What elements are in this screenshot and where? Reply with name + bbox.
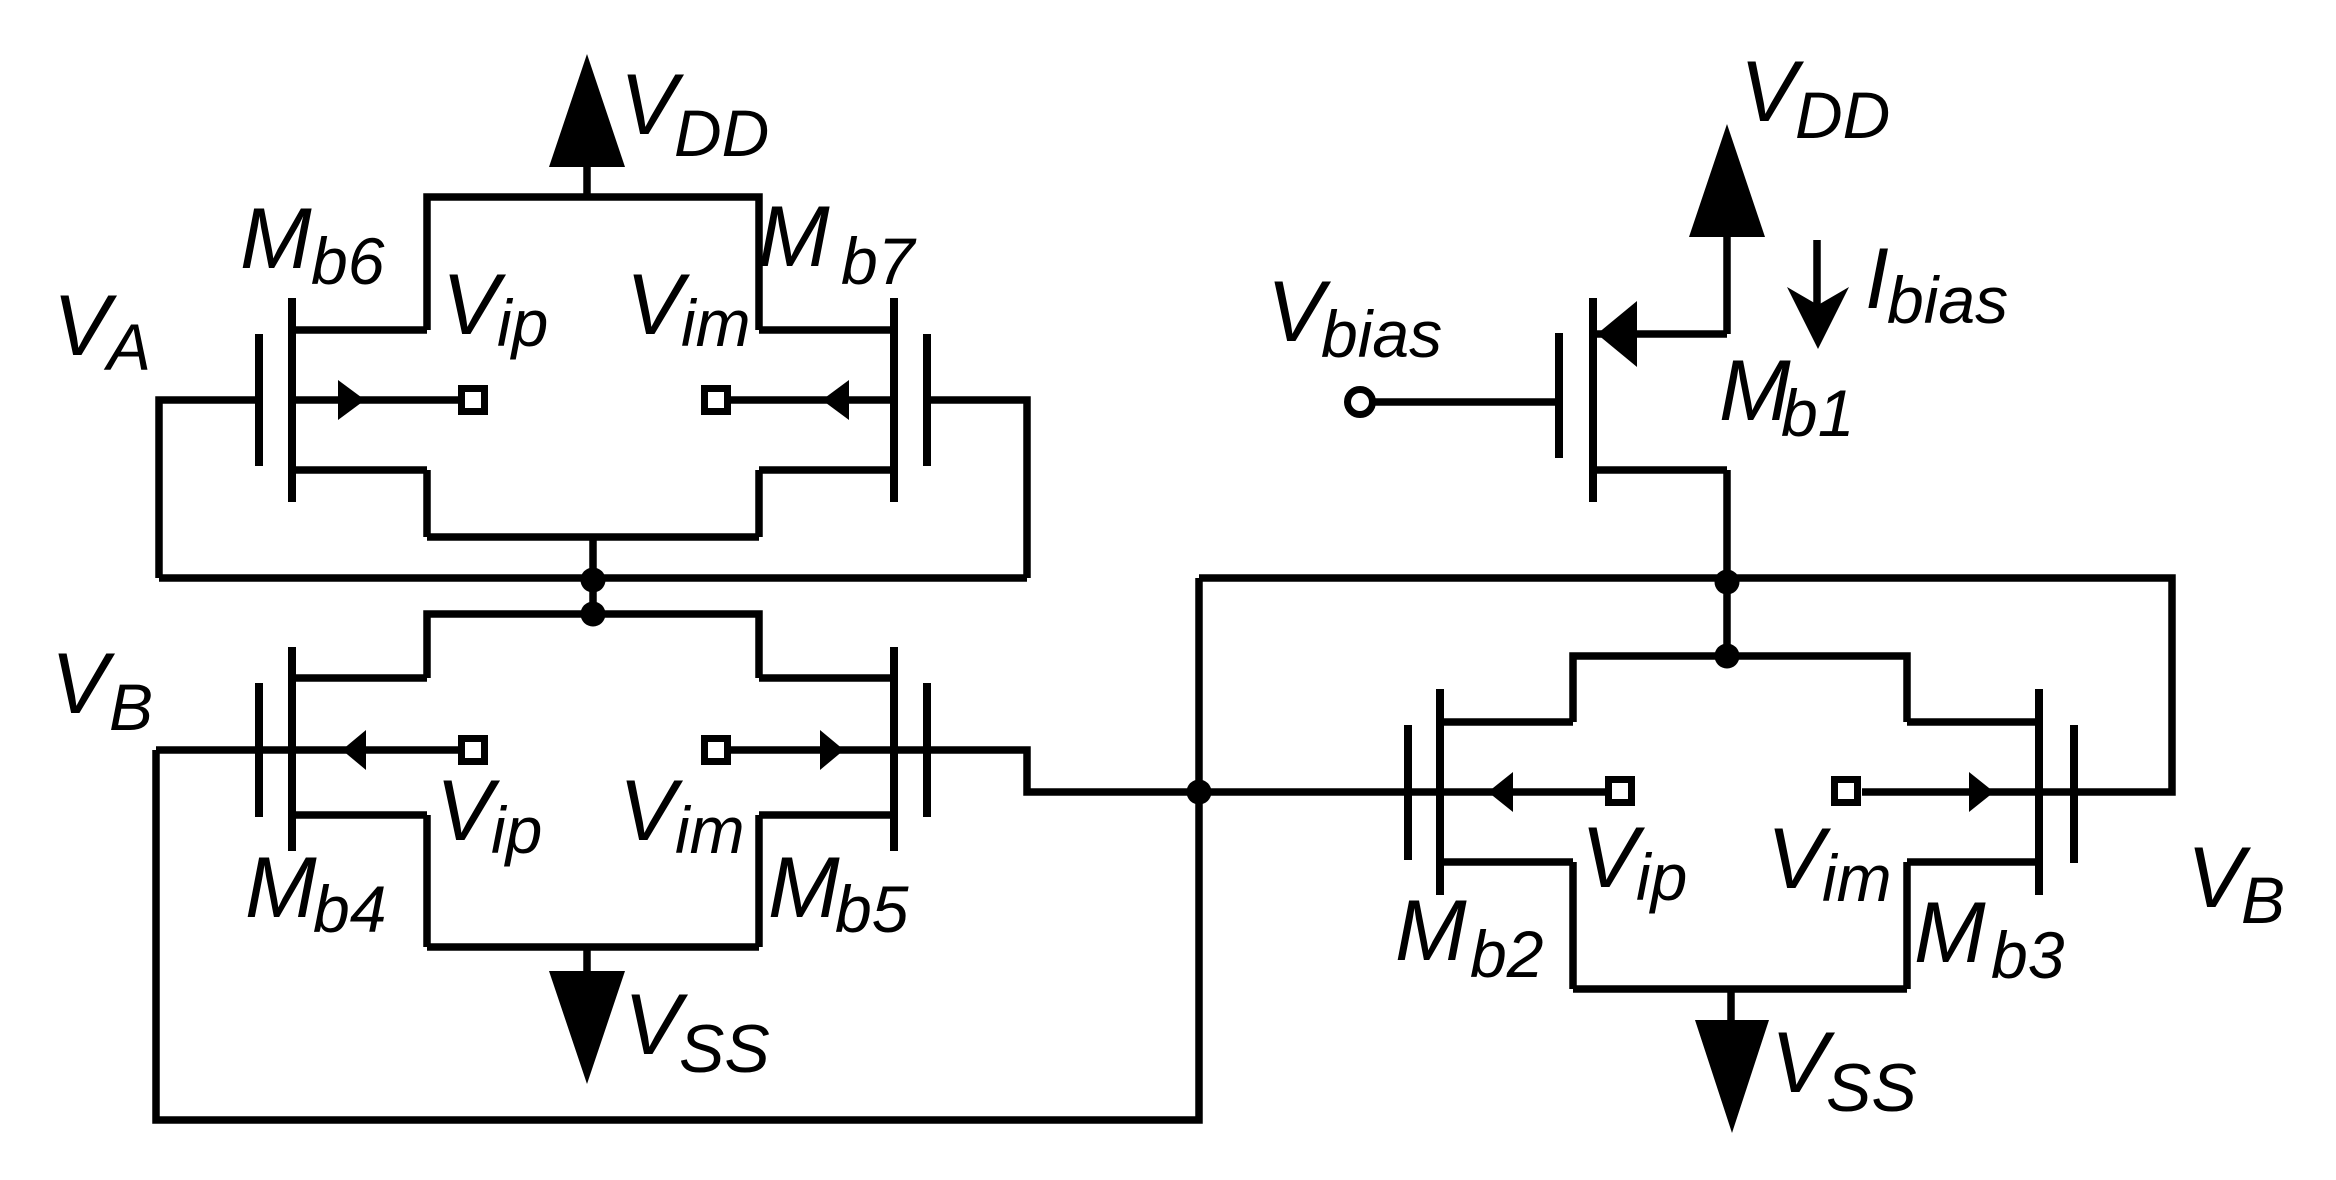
label VDD (right)	[1740, 44, 1890, 152]
junction dot node VA upper	[581, 568, 606, 593]
svg-text:SS: SS	[1826, 1050, 1917, 1126]
transistor Mb4	[156, 647, 458, 851]
wire bottom rail Mb2/Mb3 to VSS	[1573, 985, 1907, 993]
label node VA	[53, 278, 151, 384]
svg-text:B: B	[2241, 863, 2285, 937]
current arrow Ibias	[1787, 240, 1849, 349]
svg-text:ip: ip	[1636, 840, 1687, 914]
power symbol VDD (left)	[549, 54, 625, 200]
port square Vip (top cell)	[462, 389, 485, 412]
svg-text:im: im	[675, 793, 745, 867]
svg-text:ip: ip	[497, 286, 548, 360]
transistor Mb6	[259, 298, 458, 502]
wire Mb2 source drop	[1569, 862, 1577, 989]
power symbol VSS (left)	[549, 947, 625, 1084]
label Vip (top cell)	[442, 257, 548, 360]
label Mb4	[245, 840, 386, 946]
label Vim (Mb5)	[619, 763, 745, 867]
label Mb6	[240, 191, 385, 298]
svg-text:M: M	[768, 840, 840, 936]
svg-text:b2: b2	[1470, 917, 1543, 991]
label Ibias	[1865, 231, 2008, 337]
label Mb1	[1719, 343, 1854, 450]
svg-text:M: M	[1914, 885, 1986, 981]
transistor Mb2	[1408, 689, 1605, 895]
wire Vbias to Mb1 gate	[1373, 398, 1559, 406]
wire Mb7 gate to node VA	[927, 400, 1027, 578]
wire Mb5 gate jog to node VB line	[927, 750, 1408, 792]
junction dot node VA lower	[581, 602, 606, 627]
label Vip (Mb4)	[436, 763, 542, 867]
transistor Mb5	[730, 647, 927, 851]
wire Mb5 source drop	[755, 815, 763, 947]
wire top rail right section (node VB)	[1199, 578, 2172, 792]
svg-text:DD: DD	[1795, 78, 1890, 152]
label Vip (Mb2)	[1581, 810, 1687, 914]
junction dot Mb1 drain at rail	[1715, 570, 1740, 595]
svg-text:A: A	[103, 310, 151, 384]
svg-text:b7: b7	[841, 224, 917, 298]
power symbol VDD (right)	[1689, 124, 1765, 334]
wire Mb1 drain down to rail	[1723, 470, 1731, 656]
svg-text:DD: DD	[674, 96, 769, 170]
svg-text:im: im	[681, 286, 751, 360]
svg-text:I: I	[1865, 231, 1889, 327]
wire Mb7 source drop	[755, 470, 763, 537]
wire top rail left cell (sources of Mb6/Mb7 to VDD)	[427, 197, 759, 330]
label Mb2	[1395, 883, 1543, 991]
label node VB (left)	[51, 636, 153, 744]
svg-text:b3: b3	[1991, 918, 2065, 992]
svg-text:M: M	[1395, 883, 1467, 979]
wire top rail of Mb4/Mb5	[427, 614, 759, 678]
wire Mb6 source drop	[423, 470, 431, 537]
transistor Mb7	[730, 298, 927, 502]
junction dot node VB	[1187, 780, 1212, 805]
transistor Mb1	[1559, 298, 1727, 502]
svg-text:ip: ip	[491, 793, 542, 867]
wire Mb6 gate to node VA	[159, 400, 259, 578]
wire Mb3 source drop	[1903, 862, 1911, 989]
terminal Vbias	[1348, 390, 1373, 415]
wire node VB: Mb4 gate down and bottom rail	[156, 578, 1199, 1120]
port square Vim (Mb5)	[705, 739, 728, 762]
svg-text:bias: bias	[1887, 263, 2008, 337]
transistor Mb3	[1862, 689, 2074, 895]
power symbol VSS (right)	[1695, 989, 1769, 1133]
port square Vim (top cell)	[705, 389, 728, 412]
wire bottom rail Mb4/Mb5 to VSS	[427, 943, 759, 951]
label VSS (left)	[624, 977, 770, 1087]
port square Vip (Mb4)	[462, 739, 485, 762]
wire drain rail of Mb2/Mb3	[1573, 656, 1907, 722]
svg-text:V: V	[51, 636, 116, 732]
wire node VA horizontal	[159, 574, 1027, 582]
label Vim (top cell)	[626, 257, 751, 360]
svg-text:b4: b4	[313, 872, 386, 946]
label VSS (right)	[1771, 1015, 1917, 1126]
label Mb5	[768, 840, 909, 946]
svg-text:b5: b5	[835, 872, 909, 946]
svg-text:M: M	[758, 189, 830, 285]
svg-text:M: M	[245, 840, 317, 936]
wire Mb4 source drop	[423, 815, 431, 947]
svg-text:bias: bias	[1321, 297, 1442, 371]
port square Vip (Mb2)	[1609, 780, 1632, 803]
label Mb7	[758, 189, 917, 298]
svg-text:SS: SS	[679, 1011, 770, 1087]
label VDD (left)	[620, 57, 769, 170]
svg-text:im: im	[1822, 841, 1892, 915]
wire stem VA to lower rail	[589, 537, 597, 614]
junction dot at Mb2/Mb3 drain rail	[1715, 644, 1740, 669]
svg-text:B: B	[109, 670, 153, 744]
label Mb3	[1914, 885, 2065, 992]
label node VB (right)	[2187, 830, 2285, 937]
wire bottom rail of Mb6/Mb7 (node VA)	[427, 533, 759, 541]
port square Vim (Mb3)	[1835, 780, 1858, 803]
svg-text:M: M	[240, 191, 312, 287]
label Vbias	[1267, 264, 1442, 371]
svg-text:b6: b6	[311, 224, 385, 298]
label Vim (Mb3)	[1767, 811, 1892, 915]
svg-text:b1: b1	[1781, 376, 1854, 450]
